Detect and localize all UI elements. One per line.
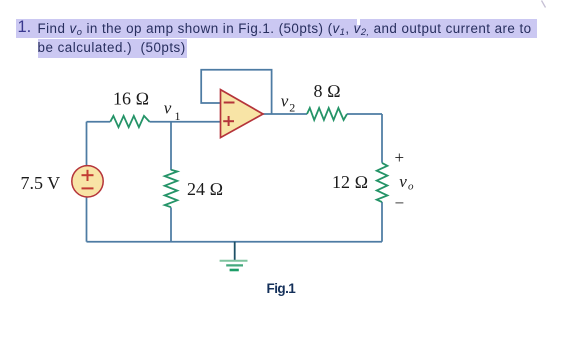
svg-text:v: v bbox=[399, 172, 407, 191]
svg-text:8 Ω: 8 Ω bbox=[314, 81, 341, 101]
svg-text:2: 2 bbox=[289, 101, 295, 115]
svg-text:1: 1 bbox=[175, 109, 181, 123]
svg-text:o: o bbox=[408, 181, 414, 193]
svg-text:v: v bbox=[164, 99, 172, 118]
svg-text:v: v bbox=[281, 92, 289, 111]
svg-text:−: − bbox=[395, 194, 405, 213]
svg-text:12 Ω: 12 Ω bbox=[332, 172, 368, 192]
svg-text:7.5 V: 7.5 V bbox=[21, 173, 61, 193]
svg-text:24 Ω: 24 Ω bbox=[187, 179, 223, 199]
svg-text:+: + bbox=[395, 148, 405, 167]
svg-text:16 Ω: 16 Ω bbox=[113, 89, 149, 109]
